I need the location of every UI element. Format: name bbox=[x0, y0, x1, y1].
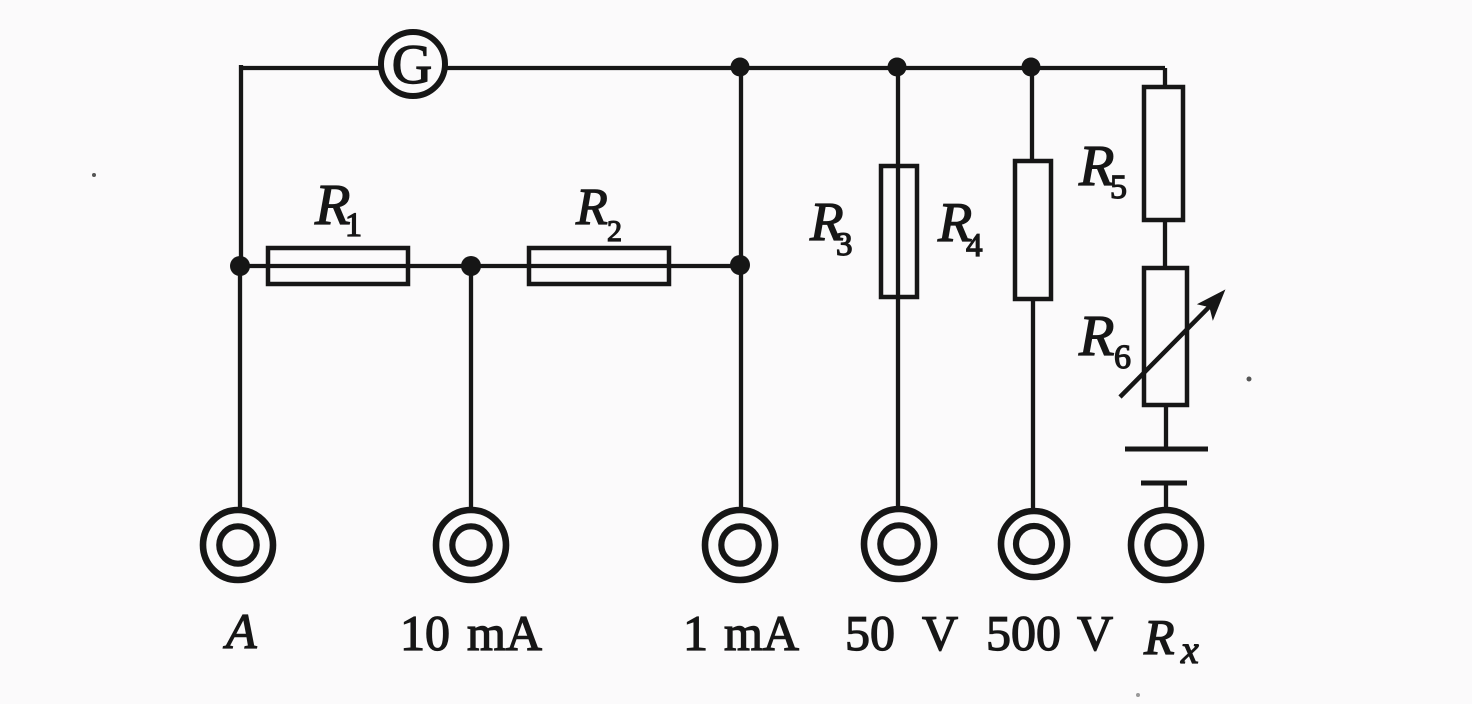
node: left end of R1 bbox=[230, 256, 250, 276]
svg-text:A: A bbox=[223, 603, 257, 659]
node: junction right of R2 (1 mA branch) bbox=[730, 255, 750, 275]
svg-text:6: 6 bbox=[1114, 339, 1131, 376]
wire: 1 mA branch vertical bbox=[739, 67, 743, 508]
label R6 bbox=[1078, 303, 1131, 376]
resistor R3 bbox=[881, 166, 917, 297]
svg-text:50: 50 bbox=[845, 605, 895, 661]
terminal 500 V (binding post) bbox=[1001, 511, 1067, 577]
label R5 bbox=[1078, 133, 1127, 206]
label 10 mA bbox=[400, 605, 542, 661]
svg-text:x: x bbox=[1180, 627, 1199, 672]
node: junction of R1/R2 to 10 mA terminal bbox=[461, 256, 481, 276]
svg-text:V: V bbox=[922, 605, 958, 661]
wire: horizontal row through R1 and R2 bbox=[240, 264, 741, 268]
resistor R5 bbox=[1144, 87, 1183, 220]
terminal Rx (binding post) bbox=[1131, 510, 1201, 580]
svg-text:500: 500 bbox=[986, 605, 1061, 661]
junction: top bus / R3 branch bbox=[888, 58, 907, 77]
arrow of adjustable resistor R6 bbox=[1120, 291, 1224, 397]
svg-text:G: G bbox=[392, 34, 432, 96]
label R1 bbox=[314, 172, 362, 244]
junction: top bus / 1 mA branch bbox=[731, 58, 750, 77]
resistor R4 bbox=[1015, 161, 1051, 299]
svg-text:mA: mA bbox=[724, 605, 799, 661]
wire: R4 branch upper segment bbox=[1030, 66, 1034, 163]
speck: small ink dot upper left bbox=[92, 173, 96, 177]
terminal 1 mA (binding post) bbox=[705, 510, 775, 580]
svg-text:mA: mA bbox=[467, 605, 542, 661]
speck: faint dot below 500 V label bbox=[1136, 693, 1140, 697]
wire: top bus, left of galvanometer bbox=[241, 66, 382, 70]
svg-text:V: V bbox=[1077, 605, 1113, 661]
label 50 V bbox=[845, 605, 958, 661]
wire: between R5 and R6 bbox=[1163, 220, 1167, 268]
svg-text:1: 1 bbox=[683, 605, 708, 661]
battery: long plate bbox=[1125, 447, 1208, 452]
svg-text:5: 5 bbox=[1110, 169, 1127, 206]
battery: short plate bbox=[1141, 481, 1187, 486]
svg-text:3: 3 bbox=[836, 227, 853, 263]
wire: 10 mA branch down bbox=[469, 266, 473, 508]
terminal 10 mA (binding post) bbox=[436, 510, 506, 580]
wire: left vertical branch (top bus to R1 node) bbox=[239, 65, 243, 266]
resistor R1 bbox=[268, 248, 408, 284]
speck: small ink dot right of R6 bbox=[1247, 377, 1252, 382]
wire: battery to Rx terminal bbox=[1164, 483, 1168, 508]
svg-text:2: 2 bbox=[607, 215, 622, 248]
label R2 bbox=[575, 179, 622, 248]
svg-text:R: R bbox=[575, 179, 608, 236]
terminal 50 V (binding post) bbox=[864, 509, 934, 579]
label R3 bbox=[809, 191, 853, 263]
galvanometer G bbox=[381, 32, 445, 96]
wire: R6 to battery bbox=[1164, 405, 1168, 451]
wire: R3 branch vertical bbox=[896, 66, 900, 506]
label R4 bbox=[937, 192, 983, 264]
wire: A branch down bbox=[238, 266, 242, 508]
svg-text:R: R bbox=[1143, 609, 1175, 665]
label Rx bbox=[1143, 609, 1199, 672]
svg-text:R: R bbox=[1078, 303, 1114, 368]
wire: top bus, right of galvanometer bbox=[445, 66, 1165, 70]
svg-text:4: 4 bbox=[966, 228, 983, 264]
label 1 mA bbox=[683, 605, 799, 661]
svg-text:1: 1 bbox=[345, 207, 362, 244]
wire: top right corner down to R5 bbox=[1163, 68, 1167, 89]
label 500 V bbox=[986, 605, 1113, 661]
junction: top bus / R4 branch bbox=[1022, 58, 1041, 77]
terminal A (binding post) bbox=[203, 510, 273, 580]
resistor R2 bbox=[529, 248, 669, 284]
svg-text:R: R bbox=[1078, 133, 1114, 198]
wire: R4 branch lower segment bbox=[1031, 299, 1035, 508]
resistor R6 (adjustable) bbox=[1144, 268, 1187, 405]
svg-text:10: 10 bbox=[400, 605, 450, 661]
